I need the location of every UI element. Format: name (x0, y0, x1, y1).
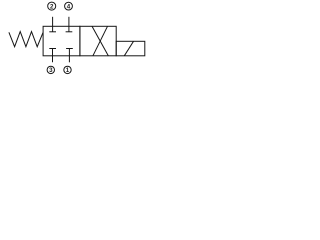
svg-text:1: 1 (66, 67, 70, 74)
svg-text:4: 4 (67, 3, 71, 10)
svg-text:2: 2 (50, 3, 54, 10)
svg-text:3: 3 (49, 67, 53, 74)
